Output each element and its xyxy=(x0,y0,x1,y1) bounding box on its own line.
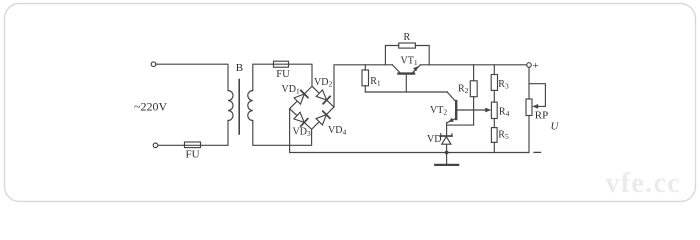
wire: output vertical with RP xyxy=(528,67,530,99)
diode VD4 symbol xyxy=(316,111,330,125)
svg-text:R4: R4 xyxy=(499,106,510,118)
svg-text:VD4: VD4 xyxy=(328,125,346,137)
wire: R2 bottom to VT2 emitter node xyxy=(447,97,474,125)
svg-text:VD1: VD1 xyxy=(282,84,300,96)
resistor R5 xyxy=(493,119,495,128)
wire: fuse FU2 to bottom AC terminal xyxy=(158,144,185,146)
RP wiper arm xyxy=(529,84,545,107)
potentiometer R4 xyxy=(493,90,495,102)
wire: fuse FU1 to bridge top corner xyxy=(289,64,313,86)
diode VD1 symbol xyxy=(294,90,308,104)
svg-text:B: B xyxy=(236,62,243,74)
svg-text:R3: R3 xyxy=(498,79,509,91)
terminal: AC input bottom xyxy=(153,143,158,148)
wire: VT2 emitter down to zener VD and ground rail xyxy=(446,123,448,153)
bridge edge VD4 wire xyxy=(312,107,334,129)
svg-text:+: + xyxy=(533,60,539,72)
minus sign xyxy=(534,151,541,153)
svg-text:VD3: VD3 xyxy=(293,126,311,138)
terminal: AC input top xyxy=(151,62,156,67)
ground symbol xyxy=(446,153,448,165)
svg-text:U: U xyxy=(551,121,560,133)
svg-text:R: R xyxy=(404,32,411,43)
diode VD3 symbol xyxy=(294,112,308,126)
svg-text:FU: FU xyxy=(276,69,290,80)
fuse FU (secondary, top) xyxy=(274,61,289,67)
svg-text:~220V: ~220V xyxy=(134,99,167,113)
bridge edge VD3 wire xyxy=(290,109,312,130)
svg-text:vfe.cc: vfe.cc xyxy=(606,168,681,199)
zener diode VD xyxy=(441,134,452,145)
resistor R3 xyxy=(493,65,495,75)
wire: R1 bottom / VT1 base node to VT2 collector xyxy=(365,91,447,93)
svg-text:RP: RP xyxy=(535,110,548,122)
diode VD2 symbol xyxy=(316,90,330,104)
resistor R2 xyxy=(473,65,475,81)
wire: secondary bottom to bridge bottom corner xyxy=(253,121,312,146)
junction dot at VD / ground rail xyxy=(445,151,449,155)
wire: positive rail from VT1 emitter to + terminal xyxy=(420,64,526,66)
wire: bridge plus corner up to positive rail xyxy=(334,65,393,107)
svg-text:VD2: VD2 xyxy=(314,77,332,89)
transformer B secondary winding xyxy=(248,91,253,121)
wire: primary bottom to fuse FU2 xyxy=(201,121,228,146)
transistor VT1 xyxy=(399,72,415,74)
svg-text:VT1: VT1 xyxy=(401,55,418,67)
svg-text:R5: R5 xyxy=(498,129,509,141)
transformer B primary winding xyxy=(228,91,233,121)
wire: bridge minus corner down to ground rail xyxy=(290,109,529,153)
wire: top AC terminal to transformer primary top xyxy=(156,64,228,90)
bridge edge VD1 wire xyxy=(290,86,312,108)
svg-text:R1: R1 xyxy=(370,76,381,88)
transistor VT2 xyxy=(455,101,457,119)
resistor R (top, parallel with VT1) xyxy=(385,46,398,65)
watermark vfe.cc xyxy=(606,168,681,199)
wire: VT2 base to R4 wiper arrow xyxy=(457,109,486,111)
potentiometer RP xyxy=(526,99,532,116)
wire: secondary top to fuse FU1 xyxy=(253,64,274,90)
terminal: output + xyxy=(527,63,532,68)
svg-text:VT2: VT2 xyxy=(430,105,447,117)
svg-text:FU: FU xyxy=(186,148,200,160)
svg-text:R2: R2 xyxy=(458,83,469,95)
transformer core xyxy=(238,80,240,135)
resistor R1 xyxy=(364,65,366,70)
bridge edge VD2 wire xyxy=(312,86,334,107)
svg-text:VD: VD xyxy=(427,134,441,145)
fuse FU (primary, bottom left) xyxy=(185,142,201,148)
